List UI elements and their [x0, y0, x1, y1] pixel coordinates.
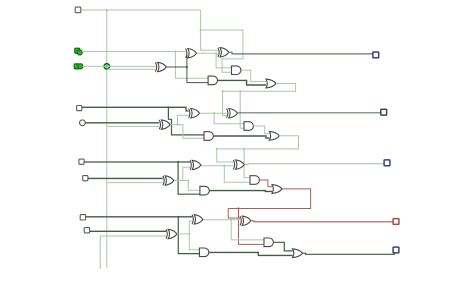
junction 8: [167, 106, 169, 108]
wire B1: [85, 122, 159, 124]
output pin S0: [373, 52, 379, 58]
input pin SUB (carry-in control): [75, 7, 81, 13]
input pin B0 (square, value 1): [74, 64, 79, 69]
xor gate binv2: [165, 176, 174, 185]
junction 9: [176, 124, 178, 126]
xor gate ab2: [192, 160, 201, 169]
wire binv0 to and1_0: [187, 67, 208, 83]
and gate and2_1: [244, 122, 253, 131]
junction 13: [177, 161, 179, 163]
or gate or0: [266, 79, 276, 88]
xor gate ab1: [191, 109, 200, 118]
wire S3 (red): [251, 221, 393, 222]
wire SUB branch bit1: [107, 125, 159, 127]
wire S1: [238, 112, 381, 114]
wire carry2 to sum3 (red): [228, 209, 240, 219]
wire binv1 out: [170, 124, 177, 126]
output pin S2: [384, 160, 390, 166]
wire and2_3 out: [274, 242, 293, 251]
wire ab3 branch to and2_3: [231, 220, 264, 240]
or gate or2: [272, 185, 282, 194]
junction 15: [187, 179, 189, 181]
wire CIN branch to and2_0: [201, 30, 243, 72]
output pin S1: [381, 109, 387, 115]
wire stub vertical left: [99, 236, 101, 269]
input pin A1: [77, 106, 82, 111]
xor gate ab3: [194, 215, 203, 224]
wire A0 branch to and1_0: [175, 52, 208, 79]
wire B2: [88, 177, 163, 179]
wire binv2 to and1_2: [188, 181, 200, 191]
wire carry0 to and2_1: [240, 91, 244, 128]
wire carry0 to sum1: [223, 91, 227, 115]
wire carry1 to and2_2: [244, 149, 250, 178]
wire binv2 to ab2: [183, 167, 190, 180]
wire A0: [82, 51, 186, 53]
xor gate sum0: [220, 48, 229, 57]
wire binv0 to ab0: [186, 55, 188, 67]
wire binv1 to and1_1: [178, 125, 205, 139]
wire binv3 to ab3: [189, 221, 192, 234]
wire SUB branch bit0: [107, 68, 156, 70]
wire B3: [90, 230, 166, 232]
wire B0: [83, 65, 156, 67]
wire SUB branch bit2: [107, 182, 163, 184]
or gate or1: [269, 131, 279, 140]
wire SUB vertical distribution line: [106, 10, 108, 268]
junction 3: [174, 50, 176, 52]
wire ab1 out: [200, 112, 227, 114]
wire carry2 loop (red): [228, 189, 310, 209]
wire SUB pin to corner: [81, 9, 201, 11]
xor gate sum1: [229, 109, 238, 118]
junction 17: [177, 216, 179, 218]
xor gate binv3: [168, 229, 177, 238]
junction 2: [200, 29, 202, 31]
wire CIN down into sum0 input: [201, 10, 218, 50]
wire S2: [245, 163, 385, 166]
junction 19: [230, 219, 232, 221]
and gate and1_3: [199, 248, 208, 257]
junction 10: [213, 112, 215, 114]
wire ab0 out to and2_0: [197, 53, 232, 68]
wire A2 branch to and1_2: [178, 162, 200, 194]
wire ab2 out: [201, 165, 233, 167]
junction 4: [186, 66, 188, 68]
input pin A3: [80, 215, 85, 220]
wire carry1 to sum2: [217, 149, 234, 162]
wire carry0 loop: [223, 84, 296, 92]
xor gate sum3: [242, 216, 251, 225]
junction 1: [106, 9, 108, 11]
wire binv3 to and1_3: [189, 234, 199, 250]
xor gate binv0: [158, 62, 167, 71]
input pin A0 (square, value 1): [75, 48, 80, 53]
xor gate ab0: [188, 49, 197, 58]
xor gate sum2: [236, 160, 245, 169]
and gate and1_2: [200, 186, 209, 195]
wire S0: [229, 52, 373, 54]
wire A1 branch to and1_1: [168, 107, 204, 135]
xor gate binv1: [161, 120, 170, 129]
input pin B3: [84, 228, 89, 233]
and gate and2_0: [232, 66, 241, 75]
wire SUB branch bit3: [100, 235, 166, 237]
wire binv3 out: [177, 233, 189, 235]
wire carry2 to and2_3 (red): [239, 209, 265, 245]
wire ab0 to sum0: [216, 54, 218, 56]
wire ab3 out: [203, 219, 240, 221]
input pin B2: [83, 176, 88, 181]
junction 14: [223, 165, 225, 167]
output pin S3 (red): [393, 219, 399, 225]
junction 7: [239, 90, 241, 92]
output pin COUT: [393, 247, 399, 253]
wire A1: [82, 107, 189, 111]
junction 12: [243, 148, 245, 150]
wire COUT: [303, 253, 395, 255]
wire binv1 to ab1: [178, 115, 189, 124]
or gate or3: [293, 249, 303, 258]
junction 18: [188, 233, 190, 235]
and gate and2_3: [264, 238, 273, 247]
input pin B1: [80, 120, 86, 126]
input pin A0 dot: [77, 50, 82, 55]
wire and1_2 out: [209, 190, 272, 193]
wire A3: [86, 216, 192, 218]
wire and2_2 out (red): [259, 180, 272, 187]
wire binv0 out: [167, 66, 187, 68]
junction 11: [216, 148, 218, 150]
input pin B0 dot: [78, 64, 83, 69]
wire and1_3 out: [209, 252, 293, 255]
and gate and2_2: [250, 176, 259, 185]
wire A3 branch to and1_3: [178, 217, 199, 254]
junction 16: [237, 207, 239, 209]
wire binv2 out: [174, 180, 188, 182]
junction dot on SUB line: [104, 64, 109, 69]
wire ab1 branch to and2_1: [214, 113, 244, 124]
junction 6: [222, 90, 224, 92]
wire and2_0 out: [241, 70, 266, 81]
wire and1_1 out: [214, 136, 269, 138]
wire A2: [84, 161, 190, 163]
wire ab2 branch to and2_2: [224, 166, 250, 183]
wire carry1 loop: [217, 136, 299, 149]
and gate and1_1: [204, 132, 213, 141]
input pin A2: [79, 159, 84, 164]
wire and2_1 out: [253, 126, 269, 134]
and gate and1_0: [208, 76, 217, 85]
wire and1_0 out: [218, 80, 267, 85]
junction 5: [215, 52, 217, 54]
